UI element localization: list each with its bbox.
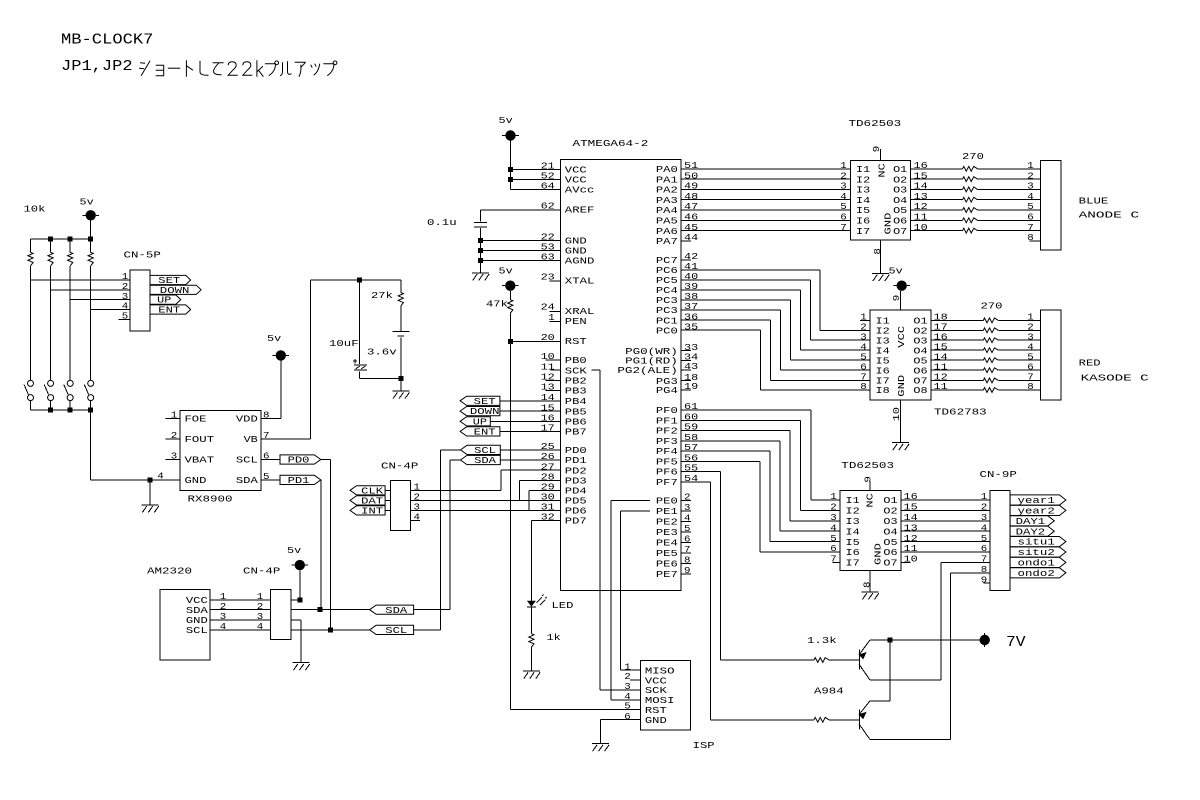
connector RED (cathode) <box>1027 310 1061 400</box>
wire RST to ISP <box>510 341 640 709</box>
IC U2 TD62503 (top) <box>849 118 911 240</box>
svg-text:27k: 27k <box>371 290 393 301</box>
svg-text:PE7: PE7 <box>656 569 678 580</box>
svg-text:5v: 5v <box>287 545 302 556</box>
U3 GND pin 10 to ground <box>891 400 909 450</box>
power 5v (pull-up rail) <box>80 196 100 239</box>
wire rows to CN-5P <box>31 280 131 310</box>
wire SCK internal to ISP <box>591 370 640 690</box>
svg-text:O1: O1 <box>883 495 898 506</box>
IC U1 ATMEGA64-2 <box>560 138 681 591</box>
ground at battery <box>392 379 409 399</box>
resistor 1k <box>529 607 561 671</box>
svg-text:GND: GND <box>185 475 207 486</box>
svg-text:SDA: SDA <box>474 455 496 466</box>
label RED KASODE C <box>1079 358 1150 384</box>
svg-text:5v: 5v <box>267 333 282 344</box>
svg-text:PEN: PEN <box>565 316 587 327</box>
svg-text:RX8900: RX8900 <box>188 493 233 504</box>
svg-text:9: 9 <box>863 476 874 483</box>
svg-text:PE3: PE3 <box>656 527 678 538</box>
svg-text:PC0: PC0 <box>656 325 678 336</box>
wire ISP GND to ground <box>600 720 640 744</box>
svg-text:O2: O2 <box>883 506 897 517</box>
svg-text:GND: GND <box>896 374 907 396</box>
svg-text:2: 2 <box>684 492 691 503</box>
svg-text:GND: GND <box>645 715 667 726</box>
svg-text:RST: RST <box>565 336 587 347</box>
svg-text:44: 44 <box>684 232 699 243</box>
svg-text:6: 6 <box>981 543 988 554</box>
svg-text:64: 64 <box>541 181 556 192</box>
svg-text:3: 3 <box>171 451 178 462</box>
U1 PB0-PB7 pins 10-17 <box>541 351 588 438</box>
svg-text:7: 7 <box>263 430 270 441</box>
wire columns to switches <box>31 266 91 381</box>
wire top rail <box>31 238 91 240</box>
ISP VCC stub <box>630 679 640 681</box>
switch SW1 <box>24 380 33 410</box>
net label situ2 <box>1010 547 1066 558</box>
connector CN-5P <box>124 249 162 331</box>
svg-text:I5: I5 <box>846 537 860 548</box>
svg-text:8: 8 <box>862 582 873 589</box>
svg-text:I1: I1 <box>846 495 861 506</box>
svg-text:I7: I7 <box>846 558 860 569</box>
svg-text:7: 7 <box>830 554 837 565</box>
svg-text:PG2(ALE): PG2(ALE) <box>617 365 677 376</box>
switch SW2 <box>44 380 53 410</box>
svg-text:XTAL: XTAL <box>565 276 595 287</box>
svg-text:5: 5 <box>981 533 988 544</box>
wires AM2320 to CN-4P <box>210 591 271 632</box>
svg-text:SDA: SDA <box>385 605 407 616</box>
svg-text:PE0: PE0 <box>656 496 678 507</box>
svg-text:6: 6 <box>830 543 837 554</box>
svg-text:O5: O5 <box>883 537 897 548</box>
power 5v (CN-4P) <box>287 545 308 600</box>
svg-text:SCL: SCL <box>385 625 407 636</box>
svg-text:PE6: PE6 <box>656 559 678 570</box>
svg-text:7: 7 <box>684 544 691 555</box>
svg-text:4: 4 <box>981 522 988 533</box>
svg-text:3: 3 <box>981 512 988 523</box>
note text JP1,JP2 short 22k pullup (Japanese) <box>61 58 337 77</box>
svg-text:TD62503: TD62503 <box>849 118 902 129</box>
svg-text:3: 3 <box>830 512 837 523</box>
svg-text:5v: 5v <box>889 265 904 276</box>
svg-text:1: 1 <box>830 491 837 502</box>
svg-text:I8: I8 <box>876 385 890 396</box>
wire Q2 collector <box>870 739 951 741</box>
svg-text:AREF: AREF <box>565 205 595 216</box>
junction dot 7V node <box>888 638 893 643</box>
svg-text:8: 8 <box>860 381 867 392</box>
svg-text:SDA: SDA <box>236 475 258 486</box>
junction dots on top rail <box>48 237 93 242</box>
transistor Q1 A984 (PNP) <box>859 640 870 680</box>
U2 input pin numbers <box>840 160 847 233</box>
svg-text:PA7: PA7 <box>656 236 678 247</box>
switch SW3 <box>64 380 73 410</box>
svg-text:ISP: ISP <box>693 740 715 751</box>
net label PD0 (RX8900 SCL) <box>261 455 321 466</box>
net label DAT <box>350 496 390 507</box>
ground at RX8900 <box>142 477 159 512</box>
wire PE1 to ISP MISO <box>620 511 650 670</box>
svg-text:7: 7 <box>840 222 847 233</box>
svg-text:AM2320: AM2320 <box>147 565 192 576</box>
net label DOWN (CN-5P) <box>150 285 201 296</box>
wire CLK to PD2 <box>411 470 561 490</box>
svg-text:16: 16 <box>904 491 918 502</box>
svg-text:INT: INT <box>361 506 383 517</box>
svg-text:I6: I6 <box>846 547 860 558</box>
U1 PC7-PC0 pins 42-35 with bus to TD62783 <box>656 251 870 390</box>
svg-text:ANODE C: ANODE C <box>1079 210 1140 221</box>
transistor Q2 A984 (PNP) <box>859 701 870 740</box>
svg-text:15: 15 <box>904 502 918 513</box>
resistor 1.3k (Q2 base) <box>711 717 860 722</box>
svg-text:NC: NC <box>877 163 888 178</box>
junction dot SCL <box>328 627 333 632</box>
svg-text:5v: 5v <box>80 196 95 207</box>
svg-text:PE5: PE5 <box>656 548 678 559</box>
svg-text:ENT: ENT <box>158 305 180 316</box>
junction dots bottom rail <box>48 408 93 413</box>
svg-text:ATMEGA64-2: ATMEGA64-2 <box>573 138 649 149</box>
resistor 27k <box>371 280 403 332</box>
LED <box>527 594 574 611</box>
wire CN-4P pin3 to ground <box>291 620 301 663</box>
svg-text:8: 8 <box>981 564 988 575</box>
resistor R3 10k <box>68 239 73 266</box>
U1 PF0-PF7 pins 61-54 with bus to TD62503 and transistors <box>656 401 840 720</box>
wire PD7 to LED <box>531 520 560 600</box>
svg-text:4: 4 <box>157 470 164 481</box>
svg-text:35: 35 <box>684 321 698 332</box>
capacitor 10uF (electrolytic) <box>329 280 367 379</box>
net label ondo2 <box>1010 568 1066 579</box>
svg-text:5v: 5v <box>499 115 514 126</box>
svg-text:8: 8 <box>1027 232 1034 243</box>
svg-text:1: 1 <box>548 312 555 323</box>
svg-text:13: 13 <box>904 522 918 533</box>
svg-text:I2: I2 <box>846 506 860 517</box>
svg-text:7V: 7V <box>1006 634 1026 651</box>
net label UP (CN-5P) <box>150 295 181 306</box>
svg-text:19: 19 <box>684 381 698 392</box>
svg-text:5: 5 <box>263 471 270 482</box>
svg-text:5: 5 <box>684 523 691 534</box>
svg-text:63: 63 <box>541 252 555 263</box>
svg-text:8: 8 <box>263 410 270 421</box>
svg-text:10: 10 <box>891 407 902 421</box>
wire SCL riser <box>439 450 441 630</box>
svg-text:I3: I3 <box>846 516 860 527</box>
svg-text:JP1,JP2: JP1,JP2 <box>61 58 133 75</box>
ground at ISP <box>592 744 609 752</box>
svg-text:9: 9 <box>684 565 691 576</box>
svg-text:5: 5 <box>122 311 129 322</box>
capacitor 0.1u <box>427 210 487 273</box>
svg-text:4: 4 <box>830 522 837 533</box>
svg-text:4: 4 <box>257 621 264 632</box>
svg-text:DAY1: DAY1 <box>1016 516 1046 527</box>
svg-text:PD0: PD0 <box>288 455 310 466</box>
svg-text:5: 5 <box>830 533 837 544</box>
net label DOWN (U1 PB5) <box>460 406 560 417</box>
svg-text:1: 1 <box>981 491 988 502</box>
svg-text:0.1u: 0.1u <box>427 217 457 228</box>
wire SDA riser <box>449 460 451 610</box>
label 10k <box>24 203 46 214</box>
U1 PG pins 33/34/43/18/19 <box>617 342 698 396</box>
svg-text:SCL: SCL <box>186 625 208 636</box>
svg-text:CN-4P: CN-4P <box>243 565 281 576</box>
svg-text:9: 9 <box>981 574 988 585</box>
svg-text:1.3k: 1.3k <box>807 635 837 646</box>
junction dot 10uF <box>357 278 362 283</box>
IC AM2320 <box>147 565 210 660</box>
svg-text:10: 10 <box>904 554 918 565</box>
net label DAY1 <box>1010 516 1054 527</box>
svg-text:year1: year1 <box>1018 495 1056 506</box>
wire Q1 collector <box>870 679 941 681</box>
connector CN-4P (RTC clock out) <box>381 460 419 530</box>
svg-text:VCC: VCC <box>896 325 907 347</box>
svg-text:LED: LED <box>552 600 574 611</box>
U4 outputs to CN-9P <box>901 491 990 564</box>
label A984 <box>814 685 844 696</box>
resistor array 270 (blue) <box>911 151 1041 233</box>
power 5v (U3 VCC pin 9) <box>889 265 911 310</box>
wire INT to PD4/PD6 <box>411 490 561 510</box>
svg-text:17: 17 <box>541 423 555 434</box>
resistor R1 10k <box>28 239 33 266</box>
svg-text:BLUE: BLUE <box>1079 195 1109 206</box>
resistor array 270 (red) <box>931 300 1041 392</box>
svg-text:5v: 5v <box>499 265 514 276</box>
RX8900 left pin stubs <box>157 410 180 482</box>
ground at LED <box>523 671 540 679</box>
U1 GND/AGND pins 22/53/63 <box>481 232 595 267</box>
U1 PA0-PA7 pins 51-44 with bus to TD62503 <box>656 160 851 247</box>
junction dot battery gnd <box>398 376 403 381</box>
pin numbers CN-4P(2) <box>411 481 421 522</box>
svg-text:PG4: PG4 <box>656 385 678 396</box>
svg-text:SCL: SCL <box>236 455 258 466</box>
svg-text:2: 2 <box>171 430 178 441</box>
label BLUE ANODE C <box>1079 195 1140 220</box>
svg-text:VBAT: VBAT <box>185 455 215 466</box>
net label CLK <box>350 485 390 496</box>
U1 XRAL pin 24 / PEN pin 1 <box>541 302 595 327</box>
net label SCL (U1 PD0) <box>440 445 560 456</box>
U4 input pin numbers <box>830 491 840 564</box>
battery 3.6v <box>367 332 409 379</box>
RX8900 right pin numbers <box>263 410 270 482</box>
junction dots GND <box>478 238 483 263</box>
wire CN-9P pin8 to Q2 <box>951 573 990 740</box>
svg-text:12: 12 <box>904 533 918 544</box>
svg-text:A984: A984 <box>814 685 844 696</box>
svg-text:PF7: PF7 <box>656 477 678 488</box>
junction dots VCC <box>508 167 513 182</box>
wire DAT to PD3/PD5 <box>411 480 561 500</box>
svg-text:situ2: situ2 <box>1018 547 1055 558</box>
net label SET (U1 PB4) <box>460 396 560 407</box>
IC U4 TD62503 (bottom) <box>840 460 901 571</box>
net label PD1 (RX8900 SDA) <box>261 475 321 486</box>
svg-text:FOUT: FOUT <box>185 434 215 445</box>
svg-text:3: 3 <box>684 502 691 513</box>
svg-text:10: 10 <box>914 222 928 233</box>
svg-text:7: 7 <box>981 554 988 565</box>
connector CN-9P <box>980 469 1018 591</box>
svg-text:year2: year2 <box>1018 506 1055 517</box>
resistor 47k <box>486 298 513 341</box>
svg-text:situ1: situ1 <box>1018 537 1056 548</box>
net label DAY2 <box>1010 526 1054 537</box>
svg-text:FOE: FOE <box>185 414 207 425</box>
connector BLUE (anode) <box>1027 160 1061 250</box>
net label year2 <box>1010 505 1066 516</box>
connector CN-4P (sensor) <box>243 565 291 639</box>
svg-text:I4: I4 <box>846 526 861 537</box>
svg-text:PE4: PE4 <box>656 538 678 549</box>
svg-text:PD1: PD1 <box>288 475 310 486</box>
wire battery bottom rail <box>360 378 401 380</box>
power 5v (RX8900 VDD) <box>267 333 289 361</box>
wire to RX8900 GND <box>91 410 180 480</box>
power 5v (U1 VCC) <box>499 115 519 190</box>
svg-text:O4: O4 <box>883 526 898 537</box>
U2 NC pin 9 stub <box>871 146 882 161</box>
svg-text:PE1: PE1 <box>656 506 678 517</box>
svg-text:47k: 47k <box>486 298 508 309</box>
U1 PD0-PD7 pins 25-32 <box>541 441 588 526</box>
wire PD0 to SCL row <box>321 460 331 630</box>
svg-text:CN-4P: CN-4P <box>381 460 419 471</box>
wire bottom rail <box>31 401 91 411</box>
svg-text:O7: O7 <box>893 226 907 237</box>
svg-text:VDD: VDD <box>236 414 258 425</box>
svg-text:RED: RED <box>1079 358 1101 369</box>
svg-text:O6: O6 <box>883 547 897 558</box>
svg-text:AGND: AGND <box>565 256 595 267</box>
svg-text:DAY2: DAY2 <box>1016 526 1046 537</box>
svg-text:11: 11 <box>904 543 919 554</box>
IC RX8900 <box>180 411 261 505</box>
wire VDD to 5v <box>261 361 281 419</box>
net label SET (CN-5P) <box>150 275 191 286</box>
resistor R2 10k <box>48 239 53 266</box>
U3 input pin numbers <box>860 312 870 393</box>
svg-text:8: 8 <box>1027 381 1034 392</box>
svg-text:6: 6 <box>263 451 270 462</box>
U4 NC pin 9 stub <box>863 476 874 491</box>
U1 VCC/AVcc pins 21/52/64 <box>511 161 595 196</box>
net label UP (U1 PB6) <box>460 416 560 427</box>
net label INT <box>350 506 390 517</box>
svg-text:10k: 10k <box>24 203 46 214</box>
svg-text:PB7: PB7 <box>565 427 587 438</box>
svg-text:6: 6 <box>684 534 691 545</box>
net label ondo1 <box>1010 557 1066 568</box>
U1 XTAL pin 23 <box>541 272 595 287</box>
svg-text:54: 54 <box>684 473 699 484</box>
svg-text:2: 2 <box>830 502 837 513</box>
svg-text:1: 1 <box>171 410 178 421</box>
svg-text:9: 9 <box>891 295 902 302</box>
net label SCL (sensor) <box>291 625 441 636</box>
svg-text:NC: NC <box>864 493 875 508</box>
pin numbers CN-5P <box>118 271 130 321</box>
svg-text:I7: I7 <box>856 226 870 237</box>
switch SW4 <box>84 380 93 410</box>
svg-text:23: 23 <box>541 272 555 283</box>
wire battery top rail <box>310 279 400 281</box>
svg-text:ondo2: ondo2 <box>1018 568 1055 579</box>
svg-text:ondo1: ondo1 <box>1018 558 1056 569</box>
svg-text:PE2: PE2 <box>656 517 678 528</box>
svg-text:8: 8 <box>684 555 691 566</box>
svg-text:10uF: 10uF <box>329 338 359 349</box>
IC U3 TD62783 <box>870 310 987 418</box>
wire PD1 to SDA row <box>320 480 322 610</box>
svg-text:O8: O8 <box>913 385 927 396</box>
resistor R4 10k <box>88 239 93 266</box>
svg-text:TD62783: TD62783 <box>934 406 987 417</box>
svg-text:GND: GND <box>872 543 883 565</box>
svg-text:CN-5P: CN-5P <box>124 249 162 260</box>
svg-text:270: 270 <box>962 151 984 162</box>
net label year1 <box>1010 495 1066 506</box>
svg-text:1k: 1k <box>547 632 562 643</box>
U1 PE0-PE7 pins 2-9 <box>656 492 691 580</box>
U2 GND pin 8 to ground <box>872 240 889 281</box>
ground at CN-4P <box>293 663 310 671</box>
svg-text:MB-CLOCK7: MB-CLOCK7 <box>61 32 153 49</box>
wire PE0 to ISP MOSI <box>611 501 650 700</box>
svg-text:CN-9P: CN-9P <box>980 469 1018 480</box>
title text MB-CLOCK7 <box>61 32 153 49</box>
net label SDA (sensor) <box>291 605 450 616</box>
svg-text:20: 20 <box>541 332 555 343</box>
net label ENT (U1 PB7) <box>460 427 560 438</box>
net label situ1 <box>1010 537 1066 548</box>
svg-text:PD7: PD7 <box>565 516 587 527</box>
U4 GND pin 8 to ground <box>862 571 879 600</box>
svg-text:14: 14 <box>904 512 919 523</box>
connector ISP <box>624 661 715 751</box>
svg-text:VB: VB <box>244 434 259 445</box>
svg-text:43: 43 <box>684 361 698 372</box>
svg-text:AVcc: AVcc <box>565 185 595 196</box>
wire Q1 emitter to 7V <box>870 639 985 641</box>
junction dot CN-4P 5v <box>297 597 302 602</box>
svg-text:4: 4 <box>684 513 691 524</box>
svg-text:270: 270 <box>981 300 1003 311</box>
svg-text:62: 62 <box>541 201 555 212</box>
net label ENT (CN-5P) <box>150 305 191 316</box>
junction dot SDA <box>318 607 323 612</box>
ground at 0.1u <box>472 273 489 281</box>
svg-text:3.6v: 3.6v <box>367 346 397 357</box>
svg-text:9: 9 <box>871 146 882 153</box>
svg-text:4: 4 <box>220 621 227 632</box>
